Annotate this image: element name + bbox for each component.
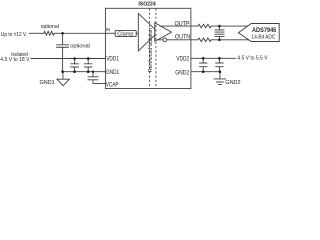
- svg-text:ADS7945: ADS7945: [252, 28, 277, 34]
- svg-text:Reinforced Isolation: Reinforced Isolation: [148, 28, 154, 72]
- svg-text:VCAP: VCAP: [106, 83, 119, 89]
- svg-text:GND2: GND2: [225, 80, 240, 86]
- svg-text:OUTP: OUTP: [175, 22, 190, 28]
- svg-text:GND1: GND1: [40, 80, 55, 86]
- svg-text:VDD1: VDD1: [106, 57, 119, 63]
- svg-text:4.5 V to 5.5 V: 4.5 V to 5.5 V: [237, 56, 268, 62]
- svg-text:VDD2: VDD2: [176, 56, 190, 62]
- svg-text:ISO224: ISO224: [138, 2, 156, 8]
- svg-text:GND1: GND1: [106, 70, 120, 76]
- svg-text:optional: optional: [70, 44, 90, 50]
- svg-text:Up to ±12 V: Up to ±12 V: [1, 32, 27, 38]
- svg-text:GND2: GND2: [175, 71, 190, 77]
- svg-text:4.5 V to 18 V: 4.5 V to 18 V: [0, 57, 30, 63]
- svg-text:OUTN: OUTN: [175, 35, 190, 41]
- svg-text:optional: optional: [41, 24, 59, 30]
- svg-text:14-Bit ADC: 14-Bit ADC: [251, 35, 275, 41]
- svg-text:IN: IN: [106, 27, 111, 33]
- svg-text:Clamp: Clamp: [117, 32, 133, 38]
